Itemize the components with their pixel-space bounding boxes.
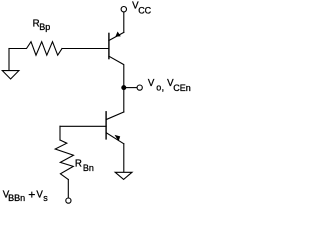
svg-text:Vo,VCEn: Vo,VCEn xyxy=(148,78,191,93)
transistor Q2 emitter xyxy=(106,133,124,144)
terminal VBBn+Vs circle xyxy=(66,198,71,203)
wire down to RBn xyxy=(59,126,61,140)
transistor Q1 emitter xyxy=(109,32,124,40)
wire VCC to Q1 emitter xyxy=(123,12,125,32)
ground (right) xyxy=(115,172,132,179)
transistor Q1 emitter arrow xyxy=(115,32,121,37)
resistor RBn xyxy=(55,140,73,180)
svg-text:VCC: VCC xyxy=(132,1,152,16)
wire node to output terminal xyxy=(124,87,137,89)
wire RBn to source terminal xyxy=(67,180,69,198)
ground (left) xyxy=(2,71,19,79)
svg-text:RBn: RBn xyxy=(75,159,94,174)
node Vo junction dot xyxy=(121,85,126,90)
wire Q2 emitter to ground xyxy=(123,144,125,172)
transistor Q2 base bar xyxy=(105,112,107,139)
transistor Q1 collector xyxy=(109,56,124,87)
wire RBp to Q1 base xyxy=(62,48,109,50)
transistor Q1 (pnp) base bar xyxy=(108,33,110,58)
transistor Q2 emitter arrow xyxy=(115,135,121,141)
terminal Vo circle xyxy=(137,85,142,90)
transistor Q2 (npn) collector xyxy=(106,112,124,120)
terminal VCC circle xyxy=(121,7,126,12)
wire to left ground xyxy=(8,49,10,71)
wire node to Q2 collector xyxy=(123,88,125,112)
svg-text:VBBnVs: VBBnVs xyxy=(3,189,49,203)
plus sign in VBBn + Vs xyxy=(29,192,35,198)
svg-text:RBp: RBp xyxy=(33,19,51,33)
resistor RBp xyxy=(9,42,62,56)
wire RBn to Q2 base xyxy=(60,125,106,127)
